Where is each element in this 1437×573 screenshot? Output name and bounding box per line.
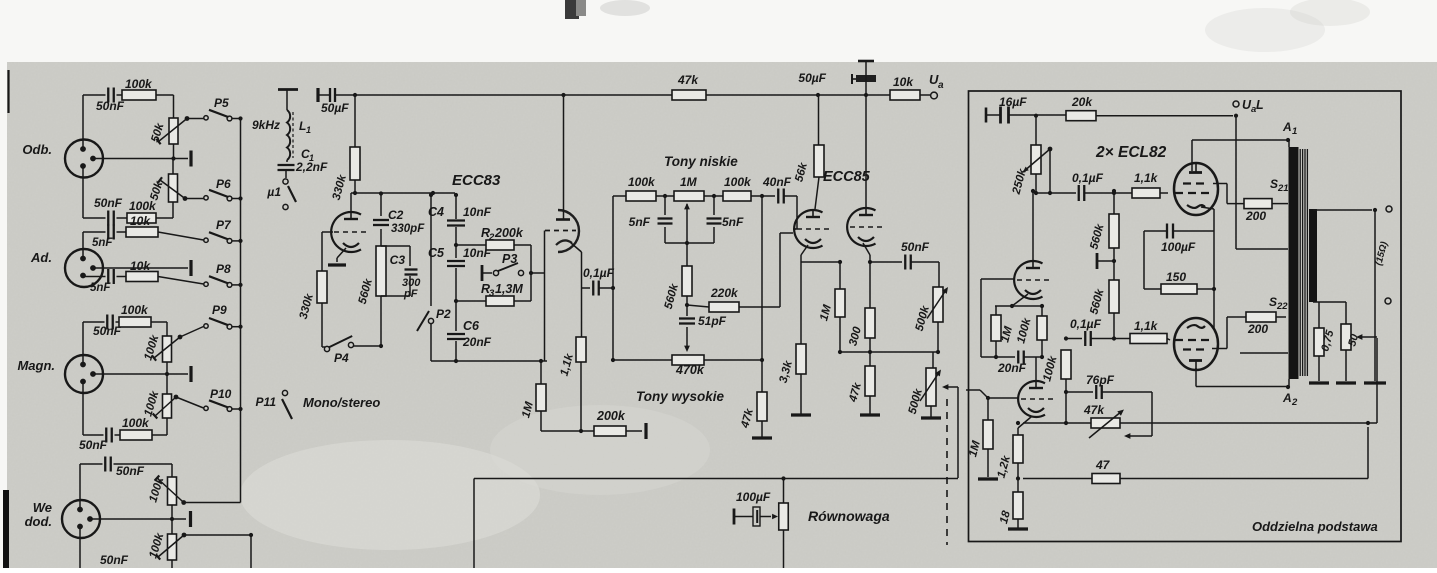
- svg-text:C4: C4: [428, 205, 444, 219]
- svg-text:22: 22: [1276, 301, 1288, 312]
- svg-text:47: 47: [1095, 458, 1111, 472]
- svg-text:dod.: dod.: [25, 514, 52, 529]
- svg-text:P6: P6: [216, 177, 231, 191]
- svg-text:100µF: 100µF: [1161, 240, 1196, 254]
- svg-text:0,1µF: 0,1µF: [1072, 171, 1104, 185]
- svg-text:1,1k: 1,1k: [1134, 319, 1159, 333]
- svg-text:5nF: 5nF: [722, 215, 744, 229]
- svg-text:50nF: 50nF: [94, 196, 123, 210]
- svg-text:10k: 10k: [130, 259, 151, 273]
- svg-text:A: A: [1282, 120, 1292, 134]
- svg-text:200: 200: [1245, 209, 1266, 223]
- svg-text:100k: 100k: [129, 199, 157, 213]
- svg-text:P2: P2: [436, 307, 451, 321]
- svg-text:76pF: 76pF: [1086, 373, 1115, 387]
- svg-text:1: 1: [1292, 126, 1297, 137]
- svg-text:100k: 100k: [125, 77, 153, 91]
- svg-text:50nF: 50nF: [116, 464, 145, 478]
- svg-text:20nF: 20nF: [462, 335, 492, 349]
- svg-text:2: 2: [1291, 397, 1298, 408]
- svg-text:50µF: 50µF: [798, 71, 826, 85]
- svg-text:2× ECL82: 2× ECL82: [1095, 144, 1167, 161]
- svg-text:40nF: 40nF: [762, 175, 792, 189]
- svg-text:200k: 200k: [596, 409, 626, 423]
- svg-text:21: 21: [1277, 183, 1289, 194]
- svg-text:a: a: [938, 80, 944, 91]
- svg-text:Tony wysokie: Tony wysokie: [636, 389, 725, 404]
- svg-text:P8: P8: [216, 262, 231, 276]
- svg-text:S: S: [1269, 295, 1277, 309]
- svg-text:C3: C3: [390, 253, 406, 267]
- svg-text:P4: P4: [334, 351, 349, 365]
- svg-text:100µF: 100µF: [736, 490, 771, 504]
- svg-text:P3: P3: [502, 252, 517, 266]
- svg-text:5nF: 5nF: [90, 282, 111, 294]
- svg-text:200: 200: [1247, 322, 1268, 336]
- svg-text:C6: C6: [463, 319, 480, 333]
- svg-text:P5: P5: [214, 96, 229, 110]
- svg-text:47k: 47k: [1083, 403, 1105, 417]
- svg-text:150: 150: [1166, 270, 1186, 284]
- svg-text:50nF: 50nF: [901, 240, 930, 254]
- svg-text:20k: 20k: [1071, 95, 1093, 109]
- svg-text:Oddzielna podstawa: Oddzielna podstawa: [1252, 519, 1378, 534]
- svg-text:10k: 10k: [130, 214, 151, 228]
- svg-text:100k: 100k: [121, 303, 149, 317]
- svg-text:P10: P10: [210, 387, 232, 401]
- svg-text:0,1µF: 0,1µF: [1070, 317, 1102, 331]
- svg-text:50nF: 50nF: [79, 438, 108, 452]
- svg-text:50µF: 50µF: [321, 101, 349, 115]
- svg-text:1,1k: 1,1k: [1134, 171, 1159, 185]
- svg-text:1M: 1M: [680, 175, 698, 189]
- svg-text:Mono/stereo: Mono/stereo: [303, 395, 380, 410]
- svg-text:470k: 470k: [675, 363, 705, 377]
- svg-text:ECC83: ECC83: [452, 172, 501, 189]
- svg-text:5nF: 5nF: [92, 237, 113, 249]
- svg-text:P9: P9: [212, 303, 227, 317]
- svg-text:5nF: 5nF: [629, 215, 651, 229]
- svg-text:Magn.: Magn.: [17, 358, 55, 373]
- svg-text:100k: 100k: [122, 416, 150, 430]
- svg-text:9kHz: 9kHz: [252, 118, 280, 132]
- svg-text:2: 2: [488, 232, 495, 243]
- svg-text:L: L: [1256, 98, 1264, 112]
- svg-text:Ad.: Ad.: [30, 250, 52, 265]
- svg-text:2,2nF: 2,2nF: [295, 160, 328, 174]
- svg-text:50nF: 50nF: [96, 99, 125, 113]
- svg-text:1: 1: [306, 125, 311, 135]
- svg-text:Odb.: Odb.: [22, 142, 52, 157]
- svg-text:16µF: 16µF: [999, 95, 1027, 109]
- svg-text:We: We: [33, 500, 52, 515]
- svg-text:C5: C5: [428, 246, 445, 260]
- svg-text:S: S: [1270, 177, 1278, 191]
- svg-text:Tony niskie: Tony niskie: [664, 154, 738, 169]
- svg-text:µ1: µ1: [266, 185, 281, 199]
- svg-text:100k: 100k: [628, 175, 656, 189]
- svg-text:50nF: 50nF: [100, 553, 129, 567]
- svg-text:Równowaga: Równowaga: [808, 508, 890, 524]
- svg-text:P11: P11: [256, 395, 277, 409]
- svg-text:20nF: 20nF: [997, 361, 1027, 375]
- svg-text:0,1µF: 0,1µF: [583, 266, 615, 280]
- svg-text:220k: 220k: [710, 286, 739, 300]
- svg-text:A: A: [1282, 391, 1292, 405]
- svg-text:10k: 10k: [893, 75, 914, 89]
- svg-text:P7: P7: [216, 218, 232, 232]
- svg-text:51pF: 51pF: [698, 314, 727, 328]
- svg-text:200k: 200k: [494, 226, 524, 240]
- svg-text:100k: 100k: [724, 175, 752, 189]
- svg-text:47k: 47k: [677, 73, 699, 87]
- svg-text:C2: C2: [388, 208, 404, 222]
- svg-text:ECC85: ECC85: [823, 169, 871, 185]
- svg-text:1,3M: 1,3M: [495, 282, 523, 296]
- svg-text:10nF: 10nF: [463, 205, 492, 219]
- svg-text:50nF: 50nF: [93, 324, 122, 338]
- svg-text:330pF: 330pF: [391, 223, 425, 235]
